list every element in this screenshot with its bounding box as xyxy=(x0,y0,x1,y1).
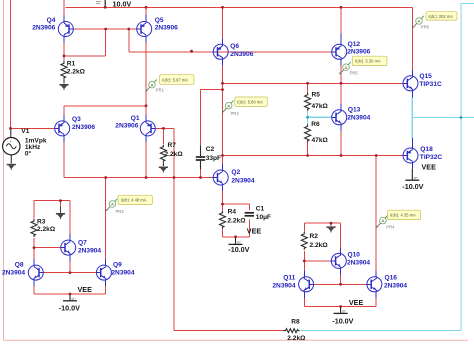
capacitor C2 33pF xyxy=(196,145,221,169)
resistor R2 2.2k xyxy=(301,232,328,250)
wire: Q3 emitter rail to Q5 collector xyxy=(64,106,146,122)
svg-text:2N3904: 2N3904 xyxy=(111,269,134,276)
wire: Q4 emitter to rail xyxy=(63,0,65,22)
junction (146,105.8) xyxy=(145,104,148,107)
wire: Q6 emitter from rail xyxy=(222,7,224,45)
svg-text:Q9: Q9 xyxy=(113,262,122,269)
ground below R1 xyxy=(59,84,68,90)
transistor Q4 2N3906 xyxy=(32,17,73,37)
svg-text:-10.0V: -10.0V xyxy=(59,304,80,313)
wire: Q15 collector to rail xyxy=(411,7,413,76)
right mirror VEE power xyxy=(332,298,363,326)
wire: Q11 emitter xyxy=(303,291,305,306)
wire: Q18 collector to VEE xyxy=(411,163,413,180)
wire: Q5 bias drop to Q6/Q12 bases xyxy=(129,29,332,52)
junction (191.5,51.2) xyxy=(190,50,193,53)
transistor Q12 2N3906 xyxy=(332,41,371,60)
wire: Q12 collector to Q13 collector xyxy=(340,59,342,111)
wire: Q13 emitter down xyxy=(340,124,342,155)
wire: Q10 collector up xyxy=(340,223,342,254)
resistor R7 2.2k xyxy=(160,142,183,166)
wire: R4 leads xyxy=(222,204,224,237)
svg-text:2N3906: 2N3906 xyxy=(32,25,55,32)
svg-text:+: + xyxy=(10,139,13,144)
svg-text:10µF: 10µF xyxy=(256,214,271,221)
ground below R7 xyxy=(159,167,168,173)
svg-text:2N3904: 2N3904 xyxy=(231,177,254,184)
probe PR2 xyxy=(106,195,153,214)
svg-text:R1: R1 xyxy=(67,61,76,68)
junction (376.2,155.5) xyxy=(375,154,378,157)
wire: cyan bottom to R8 xyxy=(301,330,462,332)
wire: Q4 collector down to R1 xyxy=(63,36,65,62)
svg-text:C1: C1 xyxy=(256,206,265,213)
wire: Q8 emitter xyxy=(33,280,35,294)
svg-text:PR5: PR5 xyxy=(350,71,359,76)
transistor Q2 2N3904 xyxy=(213,169,255,185)
junction (105.2,7.3) xyxy=(104,6,107,9)
wire: R4/C1 top xyxy=(223,203,250,205)
svg-text:V1: V1 xyxy=(21,128,29,135)
transistor Q6 2N3906 xyxy=(213,43,254,59)
resistor R5 47k xyxy=(305,92,329,111)
wire: Q7 base xyxy=(34,247,61,249)
resistor R6 47k xyxy=(305,121,329,144)
svg-text:I(dc): 5.97 mA: I(dc): 5.97 mA xyxy=(162,77,188,82)
wire: bias rail to Q18 base xyxy=(223,155,404,157)
svg-text:2.2kΩ: 2.2kΩ xyxy=(67,68,86,75)
junction (340.6,306.5) xyxy=(339,305,342,308)
svg-text:Q8: Q8 xyxy=(15,262,24,269)
svg-text:PR4: PR4 xyxy=(386,225,395,230)
source V1 xyxy=(3,128,47,164)
svg-text:2.2kΩ: 2.2kΩ xyxy=(227,218,246,225)
wire: Q7 emitter down xyxy=(69,255,71,273)
resistor R1 2.2k xyxy=(61,61,86,84)
svg-text:2.2kΩ: 2.2kΩ xyxy=(37,226,56,233)
svg-text:R3: R3 xyxy=(37,218,46,225)
wire: Q7 collector up xyxy=(69,201,71,241)
svg-text:Q16: Q16 xyxy=(385,274,398,281)
wire: R3 bottom to Q8 collector, Q7 base node xyxy=(33,238,35,266)
wire: Q16 collector feed with PR4 xyxy=(375,156,377,278)
junction (341,83.3) xyxy=(340,82,343,85)
junction (70,272.6) xyxy=(69,271,72,274)
transistor Q11 2N3904 xyxy=(272,274,313,291)
wire: right mirror gnd stem xyxy=(330,223,332,226)
junction (70,294) xyxy=(69,293,72,296)
svg-text:TIP31C: TIP31C xyxy=(419,81,442,88)
wire: Q1 base to R7/feedback xyxy=(155,127,174,129)
junction (146,177.5) xyxy=(145,176,148,179)
svg-text:VEE: VEE xyxy=(349,298,364,307)
svg-text:-10.0V: -10.0V xyxy=(228,245,249,254)
junction (341,7.3) xyxy=(340,6,343,9)
transistor Q15 TIP31C xyxy=(403,73,442,91)
svg-text:-10.0V: -10.0V xyxy=(402,182,423,191)
wire: Q3 collector down xyxy=(63,136,65,178)
svg-text:2N3906: 2N3906 xyxy=(230,51,253,58)
svg-text:2N3904: 2N3904 xyxy=(347,115,370,122)
svg-text:2N3906: 2N3906 xyxy=(347,49,370,56)
wire: left mirror gnd stem xyxy=(60,201,62,207)
junction (174,177.5) xyxy=(173,176,176,179)
wire: output cyan horizontal xyxy=(412,117,461,119)
junction (105.7,29) xyxy=(104,28,107,31)
junction (341,155.5) xyxy=(340,154,343,157)
wire: Q11-Q16 base rail xyxy=(313,283,367,285)
svg-text:VEE: VEE xyxy=(78,285,93,294)
wire: Q10 emitter down xyxy=(340,268,342,284)
transistor Q18 TIP32C xyxy=(403,146,442,163)
junction (304.3,260.9) xyxy=(303,260,306,263)
transistor Q7 2N3904 xyxy=(61,240,102,256)
svg-text:2N3906: 2N3906 xyxy=(155,25,178,32)
svg-text:R5: R5 xyxy=(312,92,321,99)
svg-text:PR1: PR1 xyxy=(156,87,165,92)
ground on left mirror bias xyxy=(56,213,65,219)
svg-text:R8: R8 xyxy=(291,319,300,326)
transistor Q8 2N3904 xyxy=(2,262,43,281)
svg-text:R4: R4 xyxy=(228,209,237,216)
svg-text:PR3: PR3 xyxy=(231,111,240,116)
wire: R5-R6 cyan link xyxy=(307,111,309,125)
junction (307.6,83.3) xyxy=(306,82,309,85)
svg-text:2.2kΩ: 2.2kΩ xyxy=(287,335,306,342)
svg-text:TIP32C: TIP32C xyxy=(420,154,443,161)
svg-text:I(dc): 4.35 mA: I(dc): 4.35 mA xyxy=(390,213,416,218)
ground on right mirror bias xyxy=(326,226,335,232)
wire: R4C1 VEE tap xyxy=(235,237,237,244)
junction (222.5,83.3) xyxy=(221,82,224,85)
wire: R6 bottom lead xyxy=(307,142,309,156)
wire: Q8-Q9 base rail xyxy=(43,272,97,274)
wire: Q5 collector down to Q1 emitter xyxy=(145,36,147,121)
resistor R3 2.2k xyxy=(31,218,56,237)
junction (34,247.6) xyxy=(33,246,36,249)
svg-text:2N3904: 2N3904 xyxy=(2,269,25,276)
wire: V1 input vertical xyxy=(10,0,12,128)
junction (200.5,177.5) xyxy=(199,176,202,179)
svg-text:2N3904: 2N3904 xyxy=(272,282,295,289)
wire: Q18 emitter cyan xyxy=(411,118,413,149)
wire: collector rail to Q2 base xyxy=(64,177,214,179)
wire: Q1 collector down xyxy=(145,136,147,178)
junction (340.6,284.3) xyxy=(339,283,342,286)
wire: C1 leads xyxy=(248,204,250,237)
svg-text:Q10: Q10 xyxy=(348,251,361,258)
probe PR5 xyxy=(339,56,387,75)
left mirror VEE power xyxy=(59,285,92,313)
resistor R4 2.2k xyxy=(220,209,247,229)
junction (331,223.2) xyxy=(330,222,333,225)
junction (64,55.9) xyxy=(63,55,66,58)
transistor Q1 2N3906 xyxy=(115,115,155,136)
junction (461,117.5) xyxy=(460,116,463,119)
probe PR4 xyxy=(376,210,420,230)
transistor Q5 2N3906 xyxy=(137,17,178,37)
junction (146,7.3) xyxy=(145,6,148,9)
wire: Q16 emitter xyxy=(375,291,377,306)
svg-text:47kΩ: 47kΩ xyxy=(312,137,329,144)
svg-text:33pF: 33pF xyxy=(206,155,221,162)
capacitor C1 10uF xyxy=(245,206,271,221)
svg-text:Q4: Q4 xyxy=(47,17,56,24)
wire: cyan to Q13 base xyxy=(308,116,333,118)
junction (307.6,117.3) xyxy=(306,116,309,119)
wire: Q6 collector to Q2 collector vertical xyxy=(222,59,224,171)
svg-text:Q12: Q12 xyxy=(348,41,361,48)
svg-text:Q2: Q2 xyxy=(231,169,240,176)
resistor R8 2.2k horizontal xyxy=(279,319,306,342)
wire: C2 top stub xyxy=(201,90,223,146)
svg-text:Q6: Q6 xyxy=(230,43,239,50)
svg-text:2.2kΩ: 2.2kΩ xyxy=(165,151,184,158)
svg-text:-10.0V: -10.0V xyxy=(332,317,353,326)
wire: left mirror bias R3 to Q7 collector xyxy=(34,201,70,219)
svg-text:0°: 0° xyxy=(25,150,32,158)
transistor Q10 2N3904 xyxy=(331,251,370,268)
junction (235.5,236.8) xyxy=(234,235,237,238)
svg-text:Q11: Q11 xyxy=(283,274,295,281)
wire: top VCC rail xyxy=(66,6,413,8)
svg-text:Q3: Q3 xyxy=(72,116,81,123)
probe PR1 xyxy=(145,75,194,93)
junction (307.6,155.5) xyxy=(306,154,309,157)
svg-text:C2: C2 xyxy=(206,146,215,153)
wire: Q2 emitter down xyxy=(222,185,224,205)
wire: Q9 collector feed with PR2 xyxy=(105,178,107,266)
ground below V1 xyxy=(7,164,16,170)
transistor Q3 2N3906 xyxy=(55,116,96,136)
svg-text:Q7: Q7 xyxy=(78,240,87,247)
probe PR3 xyxy=(222,97,267,116)
transistor Q16 2N3904 xyxy=(367,274,408,291)
svg-text:I(dc): 5.30 mA: I(dc): 5.30 mA xyxy=(355,59,381,64)
svg-text:10.0V: 10.0V xyxy=(113,0,132,9)
wire: Q4 diode connect drop xyxy=(64,29,106,56)
junction (222.5,89.6) xyxy=(221,88,224,91)
VCC power symbol 10.0V xyxy=(96,0,131,9)
junction (222.5,7.3) xyxy=(221,6,224,9)
svg-text:I(dc): 5.80 mA: I(dc): 5.80 mA xyxy=(237,100,263,105)
wire: right mirror bias R2 to Q10 collector xyxy=(304,223,340,231)
svg-text:Q13: Q13 xyxy=(348,106,361,113)
wire: VAS node horizontal to Q15 base xyxy=(223,82,404,84)
junction (105.7,177.5) xyxy=(104,176,107,179)
junction (128.8,29) xyxy=(127,28,130,31)
svg-text:Q15: Q15 xyxy=(419,73,432,80)
transistor Q13 2N3904 xyxy=(332,106,371,124)
wire: Q5 emitter to rail xyxy=(145,7,147,22)
svg-text:I(dc): 4.48 mA: I(dc): 4.48 mA xyxy=(121,198,147,203)
wire: Q4-Q5 base wire xyxy=(73,28,137,30)
svg-text:VEE: VEE xyxy=(247,226,262,235)
svg-text:2N3904: 2N3904 xyxy=(384,282,407,289)
wire: cyan top stub xyxy=(461,3,474,5)
transistor Q9 2N3904 xyxy=(96,262,134,281)
svg-text:R7: R7 xyxy=(168,142,177,149)
wire: feedback vertical xyxy=(173,128,175,330)
wire: cyan right vertical xyxy=(460,4,462,331)
wire: cyan mid stub xyxy=(461,117,474,119)
svg-text:R6: R6 xyxy=(311,121,320,128)
junction (222.5,155.5) xyxy=(221,154,224,157)
probe PR6 xyxy=(412,12,457,30)
wire: R2 bottom to Q11 collector, Q10 base node xyxy=(303,251,305,277)
junction (60.5,200.6) xyxy=(59,199,62,202)
svg-text:2N3906: 2N3906 xyxy=(115,123,138,130)
svg-text:I(dc): 202 mA: I(dc): 202 mA xyxy=(428,14,453,19)
svg-text:PR6: PR6 xyxy=(421,25,430,30)
svg-text:2N3906: 2N3906 xyxy=(72,124,95,131)
svg-text:R2: R2 xyxy=(310,233,319,240)
wire: V1 to Q3 base xyxy=(11,127,56,129)
svg-text:Q1: Q1 xyxy=(131,115,140,122)
wire: R4/C1 bottom xyxy=(223,236,250,238)
wire: R7 hang xyxy=(162,128,164,144)
svg-text:2N3904: 2N3904 xyxy=(78,248,101,255)
svg-text:PR2: PR2 xyxy=(116,209,125,214)
junction (10.5,128.4) xyxy=(9,127,12,130)
junction (222.5,204.1) xyxy=(221,203,224,206)
svg-text:Q5: Q5 xyxy=(155,17,164,24)
wire: C2 bottom to base rail xyxy=(200,169,202,178)
wire: feedback bottom to R8 xyxy=(174,330,279,332)
wire: R5 top lead xyxy=(307,83,309,93)
svg-text:VEE: VEE xyxy=(422,163,437,172)
R4C1 VEE power xyxy=(228,226,261,254)
svg-text:2N3904: 2N3904 xyxy=(347,260,370,267)
wire: Q9 emitter xyxy=(105,280,107,294)
Q18 VEE power xyxy=(402,163,436,191)
wire: right VEE rail xyxy=(304,307,376,313)
svg-text:47kΩ: 47kΩ xyxy=(312,103,329,110)
wire: Q15 emitter down cyan xyxy=(411,90,413,117)
wire: Q12 emitter from rail xyxy=(340,7,342,45)
wire: left VEE rail xyxy=(34,294,106,300)
svg-text:2.2kΩ: 2.2kΩ xyxy=(310,242,329,249)
svg-text:Q18: Q18 xyxy=(420,146,433,153)
junction (163.4,128.4) xyxy=(162,127,165,130)
wire: Q10 base xyxy=(304,260,331,262)
